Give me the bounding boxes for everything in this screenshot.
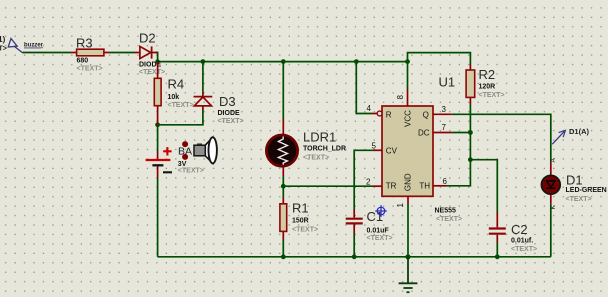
node bus-LDR junction — [281, 59, 286, 64]
pin 3 Q — [433, 105, 451, 114]
wire D3 anode to R4 bottom — [158, 110, 203, 125]
wire input to R3 — [23, 52, 72, 54]
svg-text:<TEXT>: <TEXT> — [77, 66, 103, 73]
svg-text:4: 4 — [367, 104, 372, 113]
wire bottom bus — [158, 256, 551, 258]
svg-text:<TEXT>: <TEXT> — [511, 246, 537, 253]
svg-text:(1): (1) — [0, 35, 6, 44]
node bus-R4 junction — [155, 59, 160, 64]
wire DC pin7 net — [451, 132, 470, 134]
svg-text:6: 6 — [443, 177, 448, 186]
svg-text:R2: R2 — [479, 67, 496, 82]
svg-text:1: 1 — [396, 203, 405, 208]
svg-text:D1(A): D1(A) — [569, 127, 590, 136]
svg-text:3: 3 — [442, 105, 447, 114]
svg-text:K: K — [550, 205, 557, 210]
diode D3 — [194, 93, 244, 126]
resistor R1 — [280, 198, 318, 240]
svg-text:LDR1: LDR1 — [303, 130, 336, 145]
node C2 branch junction — [468, 157, 473, 162]
node bus-VCC junction — [405, 59, 410, 64]
svg-text:<TEXT>: <TEXT> — [218, 118, 244, 125]
svg-text:2: 2 — [366, 177, 371, 186]
svg-text:U1: U1 — [439, 75, 456, 90]
svg-text:GND: GND — [404, 173, 413, 191]
wire pin4 net from bus — [356, 62, 371, 114]
wire Q pin3 net to LED — [451, 114, 550, 162]
capacitor C1 — [346, 209, 393, 242]
wire GND pin1 to bus — [407, 204, 409, 257]
resistor R4 — [154, 62, 193, 125]
node ground junction — [405, 254, 410, 259]
svg-text:DC: DC — [418, 129, 430, 138]
svg-text:680: 680 — [77, 58, 89, 65]
loudspeaker pins (red dots) — [182, 141, 188, 147]
wire D2 to top bus corner — [156, 53, 158, 62]
node R1-bus junction — [281, 254, 286, 259]
node pin7-R2 junction — [468, 130, 473, 135]
wire top bus — [158, 61, 408, 63]
svg-text:TORCH_LDR: TORCH_LDR — [303, 146, 346, 153]
svg-text:<TEXT>: <TEXT> — [168, 102, 194, 109]
wire battery minus down left rail — [157, 178, 159, 257]
svg-text:<TEXT>: <TEXT> — [303, 155, 329, 162]
svg-text:R: R — [386, 110, 392, 119]
wire junction down to battery — [157, 125, 159, 151]
pin 5 CV — [372, 142, 383, 151]
wire R1 bottom to bus — [282, 240, 284, 257]
svg-text:LED-GREEN: LED-GREEN — [566, 187, 607, 194]
svg-text:0.01uf.: 0.01uf. — [511, 237, 533, 244]
node R4-D3-battery junction — [155, 122, 160, 127]
svg-text:<TEXT>: <TEXT> — [566, 196, 592, 203]
svg-text:5: 5 — [372, 142, 377, 151]
svg-text:CV: CV — [386, 146, 398, 155]
wire D3 cathode drop — [202, 62, 204, 93]
wire C2 bottom to bus — [496, 243, 498, 257]
terminal input (1) — [0, 35, 44, 53]
svg-text:R4: R4 — [168, 77, 185, 92]
svg-text:<TEXT>: <TEXT> — [139, 69, 165, 76]
svg-text:Q: Q — [423, 110, 429, 119]
node bus-pin4 junction — [354, 59, 359, 64]
pin 7 DC — [433, 123, 451, 132]
svg-text:D1: D1 — [566, 173, 583, 188]
ground — [399, 257, 418, 292]
wire branch to C2 — [470, 160, 497, 212]
LDR LDR1 — [266, 119, 346, 176]
loudspeaker — [194, 137, 217, 163]
wire TR net — [283, 185, 373, 187]
node bus-D3 junction — [201, 59, 206, 64]
svg-text:<TEXT>: <TEXT> — [292, 227, 318, 234]
resistor R2 — [466, 65, 504, 105]
wire LDR bottom to TR node — [282, 176, 284, 186]
svg-text:D3: D3 — [219, 94, 236, 109]
svg-text:<TEXT>: <TEXT> — [367, 235, 393, 242]
svg-text:<TEXT>: <TEXT> — [178, 167, 204, 174]
terminal output D1(A) — [552, 127, 589, 144]
svg-text:0.01uF: 0.01uF — [367, 228, 390, 235]
svg-text:150R: 150R — [292, 218, 309, 225]
svg-text:T>: T> — [0, 46, 7, 53]
wire LDR top drop — [282, 62, 284, 119]
pin 1 GND — [396, 196, 408, 207]
svg-text:<TEXT>: <TEXT> — [479, 92, 505, 99]
node C2-bus junction — [495, 254, 500, 259]
wire CV net to C1 — [354, 150, 373, 209]
LED D1 — [541, 158, 606, 210]
wire R1 top — [282, 186, 284, 197]
diode D2 — [135, 31, 166, 77]
svg-text:D2: D2 — [139, 31, 156, 46]
svg-text:NE555: NE555 — [435, 207, 457, 214]
svg-text:R3: R3 — [76, 36, 93, 51]
svg-text:DIODE: DIODE — [218, 110, 241, 117]
wire C1 bottom to bus — [353, 233, 355, 257]
svg-text:R1: R1 — [292, 201, 309, 216]
pin 4 R with bubble — [367, 104, 383, 116]
pin 6 TH — [433, 177, 448, 186]
origin marker on C1 — [375, 205, 387, 217]
svg-text:8: 8 — [396, 95, 405, 100]
pin 8 VCC — [396, 89, 408, 106]
svg-text:TH: TH — [419, 182, 430, 191]
svg-text:A: A — [550, 158, 557, 163]
wire LED cathode to bus — [550, 204, 552, 257]
battery BAT 3V — [146, 145, 204, 178]
node C1-bus junction — [352, 254, 357, 259]
wire VCC step to R2 — [408, 53, 471, 65]
pin 2 TR — [366, 177, 382, 186]
svg-text:<TEXT>: <TEXT> — [436, 216, 462, 223]
svg-text:C2: C2 — [511, 222, 528, 237]
capacitor C2 — [489, 212, 537, 253]
svg-text:10k: 10k — [168, 94, 180, 101]
wire VCC pin8 drop — [407, 62, 409, 89]
svg-text:VCC: VCC — [404, 110, 413, 127]
resistor R3 — [71, 36, 110, 73]
op-amp U1 NE555 body — [382, 75, 462, 223]
svg-text:120R: 120R — [479, 83, 496, 90]
node LDR-R1-TR junction — [281, 184, 286, 189]
svg-text:7: 7 — [442, 123, 447, 132]
svg-text:TR: TR — [386, 182, 397, 191]
wire R2 bottom vertical to TH — [446, 104, 470, 186]
wire R3 to D2 — [110, 52, 135, 54]
